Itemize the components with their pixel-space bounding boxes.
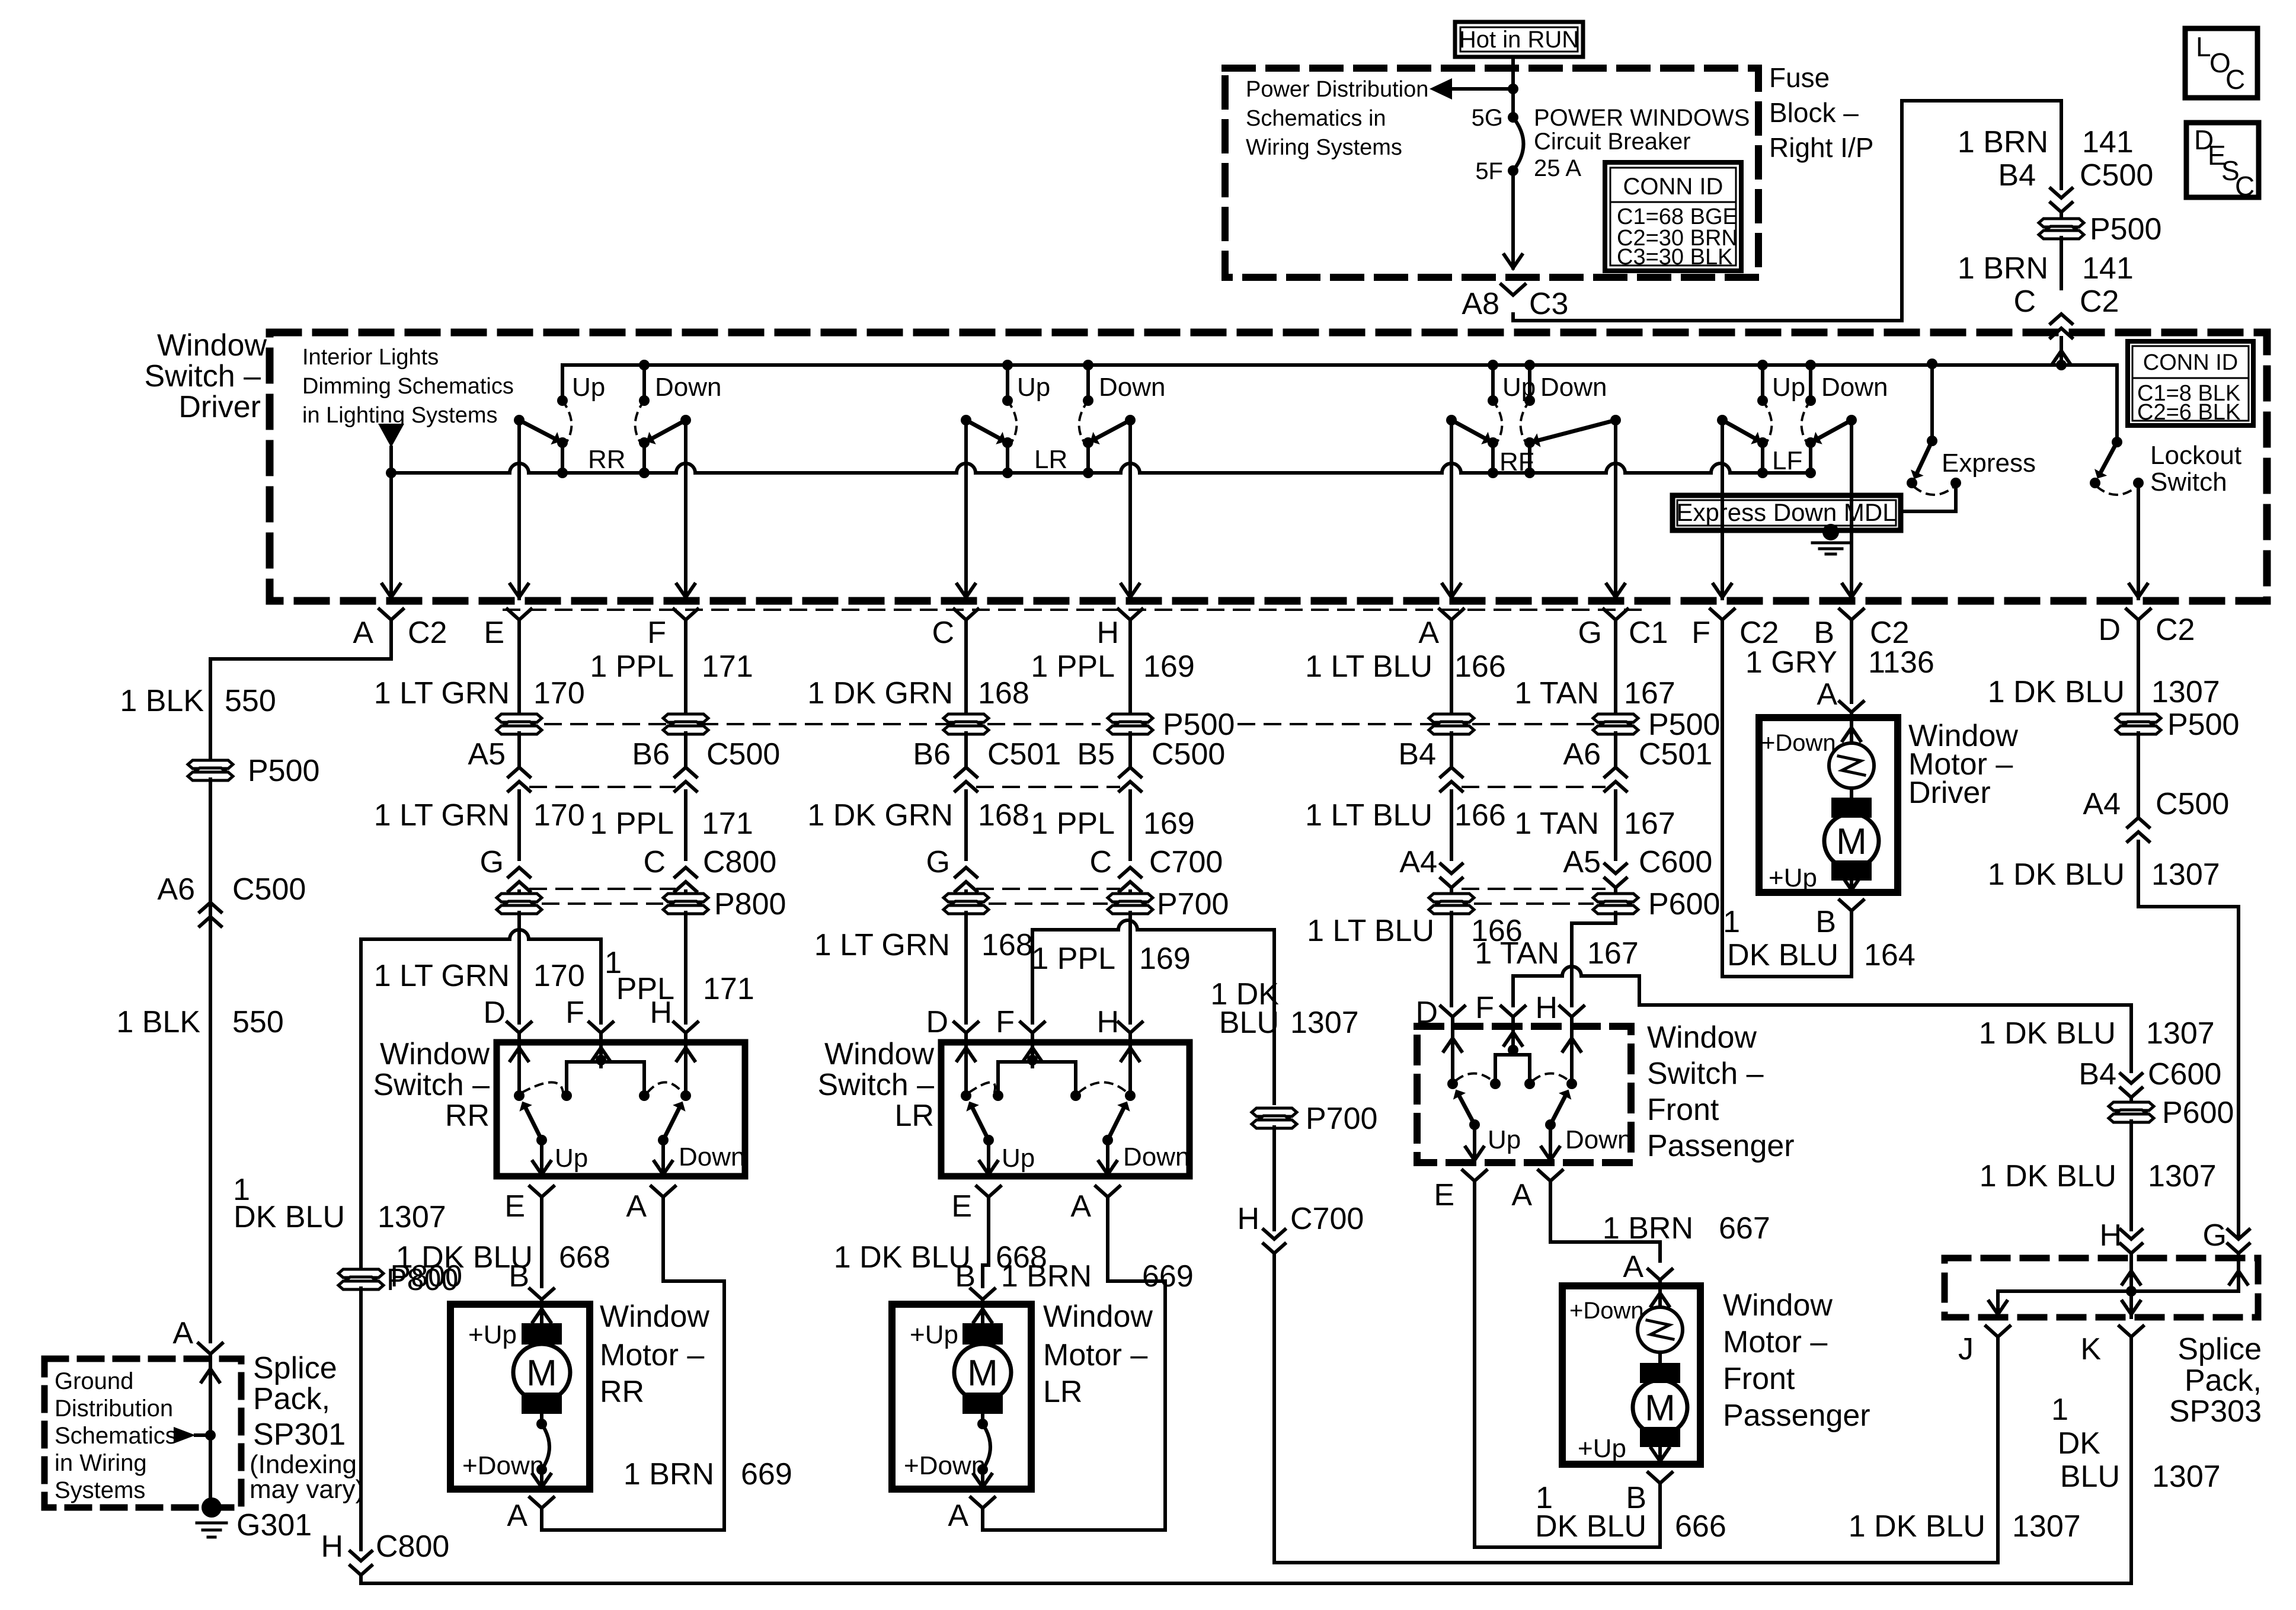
svg-text:Ground: Ground — [55, 1368, 133, 1394]
svg-text:1 LT GRN: 1 LT GRN — [374, 798, 510, 833]
exit wire x=2726 — [1614, 420, 1617, 598]
wire D/C2 segment — [2137, 647, 2140, 715]
svg-text:P700: P700 — [1157, 887, 1229, 921]
LR exit wires — [987, 1140, 990, 1176]
RR switch left arm — [514, 415, 525, 425]
svg-text:M: M — [526, 1353, 557, 1394]
svg-text:B6: B6 — [632, 737, 670, 772]
FP feed wire loop (from SP303 H) — [1513, 966, 2131, 1071]
svg-text:25 A: 25 A — [1534, 155, 1581, 181]
MDL ground — [1822, 524, 1839, 540]
FP dashed arcs — [1456, 1074, 1492, 1081]
svg-text:Hot in RUN: Hot in RUN — [1459, 27, 1579, 53]
svg-text:169: 169 — [1139, 942, 1191, 976]
svg-text:M: M — [1836, 821, 1867, 862]
svg-text:669: 669 — [741, 1457, 792, 1491]
chevron row2 x=876 — [517, 733, 521, 767]
svg-text:F: F — [996, 1005, 1015, 1039]
window motor RR box — [450, 1304, 590, 1489]
svg-text:Window: Window — [380, 1037, 490, 1071]
inline connector row1 x=2449 — [1429, 714, 1474, 734]
svg-text:Window: Window — [1043, 1299, 1153, 1334]
FP A wire to motor — [1550, 1181, 1660, 1261]
svg-text:1136: 1136 — [1868, 645, 1934, 680]
inline connector P600 on C600 riser — [2129, 1097, 2133, 1103]
chevron row3 down x=2726 — [1605, 864, 1626, 888]
svg-text:RF: RF — [1499, 447, 1534, 476]
connector row 1 dashed line — [519, 723, 1099, 725]
svg-text:C: C — [1089, 845, 1112, 879]
wire F to switch H (RR) — [684, 913, 687, 1023]
window switch LR box — [941, 1042, 1189, 1176]
arrow to power distribution schematics — [1441, 87, 1513, 91]
svg-text:C600: C600 — [2148, 1057, 2221, 1092]
svg-text:1 LT BLU: 1 LT BLU — [1305, 649, 1432, 684]
svg-text:Dimming Schematics: Dimming Schematics — [302, 374, 514, 399]
svg-text:166: 166 — [1454, 798, 1506, 833]
window switch RR box — [497, 1042, 745, 1176]
Hot in RUN label box — [1455, 22, 1583, 57]
svg-text:B6: B6 — [913, 737, 951, 772]
svg-text:C: C — [2235, 171, 2255, 201]
svg-text:1 DK GRN: 1 DK GRN — [807, 798, 953, 833]
svg-text:A: A — [626, 1189, 647, 1224]
svg-text:Systems: Systems — [55, 1477, 145, 1503]
svg-text:Down: Down — [655, 373, 722, 402]
driver motor thermal breaker — [1829, 743, 1874, 788]
svg-text:Splice: Splice — [2177, 1332, 2262, 1366]
svg-text:P800: P800 — [714, 887, 786, 921]
svg-text:Passenger: Passenger — [1647, 1129, 1795, 1163]
connector row C2 thin dashed line — [504, 609, 1642, 611]
wire B/C2 to driver motor A — [1850, 647, 1853, 702]
svg-text:Schematics: Schematics — [55, 1423, 177, 1449]
svg-text:1 BRN: 1 BRN — [1603, 1211, 1693, 1246]
RF switch up contact — [1491, 365, 1495, 401]
wire x=1157 segment to connector row1 — [684, 647, 687, 715]
SP303 J exit — [1986, 1326, 2010, 1337]
FP bottom wire 666 — [1475, 1545, 1660, 1549]
RR down arm — [658, 1135, 669, 1145]
svg-text:Window: Window — [824, 1037, 934, 1071]
RR motor symbol — [522, 1323, 562, 1345]
fuse block dashed box — [1225, 68, 1758, 277]
LR switch left arm — [961, 415, 971, 425]
RR switch up contact — [561, 365, 564, 401]
RF switch right arm — [1610, 415, 1621, 425]
LF moving contact stubs — [1761, 443, 1764, 473]
svg-text:F: F — [565, 996, 584, 1030]
svg-text:RR: RR — [588, 445, 626, 474]
svg-text:E: E — [484, 616, 504, 650]
wire x=2726 segment to connector row1 — [1614, 647, 1617, 715]
exit wire x=660 — [389, 473, 393, 598]
exit wire x=1157 — [684, 420, 687, 598]
chevron row2 x=1157 — [684, 733, 687, 767]
svg-text:Down: Down — [1123, 1142, 1190, 1172]
svg-text:Block –: Block – — [1769, 97, 1859, 128]
svg-text:1 BRN: 1 BRN — [1001, 1259, 1092, 1294]
svg-text:F: F — [647, 616, 666, 650]
svg-text:1 DK GRN: 1 DK GRN — [807, 676, 953, 710]
svg-text:Interior Lights: Interior Lights — [302, 345, 439, 370]
svg-text:Driver: Driver — [178, 390, 261, 424]
LF switch up contact — [1761, 365, 1764, 401]
TAN wire jog to FP switch H — [1572, 913, 1616, 1006]
ground distribution dashed box — [44, 1359, 241, 1507]
chevron row3 down x=2449 — [1441, 864, 1462, 888]
circuit breaker POWER WINDOWS 25 A — [1508, 112, 1518, 123]
svg-text:1 BLK: 1 BLK — [116, 1005, 200, 1039]
FP T-bar — [1508, 1045, 1518, 1055]
inline connectors P600 (RF pair) — [1429, 894, 1474, 914]
svg-text:C700: C700 — [1290, 1202, 1364, 1236]
svg-text:Wiring Systems: Wiring Systems — [1246, 135, 1402, 160]
svg-text:1 BRN: 1 BRN — [1958, 251, 2048, 286]
RR feed wire loop — [361, 930, 601, 1267]
svg-text:H: H — [2099, 1218, 2122, 1253]
wire RR E to motor B — [540, 1223, 543, 1286]
SP303 internal wires — [2129, 1258, 2133, 1291]
svg-text:667: 667 — [1719, 1211, 1770, 1246]
svg-text:C800: C800 — [703, 845, 776, 879]
LR up arm — [983, 1135, 994, 1145]
svg-text:A: A — [172, 1316, 193, 1350]
svg-text:A: A — [1511, 1178, 1532, 1212]
RR motor A exit — [530, 1497, 554, 1508]
svg-text:Circuit Breaker: Circuit Breaker — [1534, 129, 1691, 155]
svg-text:H: H — [650, 996, 672, 1030]
chevron row2 x=2726 — [1614, 733, 1617, 767]
RR box entry chevron x=876 — [507, 1022, 531, 1033]
FP outer contacts — [1447, 1078, 1458, 1089]
ground splice G301 — [202, 1497, 222, 1518]
svg-text:C800: C800 — [376, 1529, 449, 1564]
svg-text:BLU: BLU — [1219, 1006, 1279, 1040]
wire A/C2 to 1 BLK — [210, 647, 391, 761]
RF switch down contact — [1528, 365, 1531, 401]
svg-text:1 DK BLU: 1 DK BLU — [1979, 1016, 2116, 1051]
driver motor B exit — [1840, 900, 1863, 911]
wire feed to H C800 — [359, 1288, 363, 1550]
inline connector row1 x=1907 — [1108, 714, 1153, 734]
main bus wire with hops — [391, 463, 1811, 473]
SP303 K exit — [2119, 1326, 2143, 1337]
svg-text:F: F — [1475, 991, 1494, 1025]
LR entry arrows — [964, 1042, 968, 1096]
svg-text:5G: 5G — [1472, 105, 1503, 131]
wire D to splice pack G (right loop) — [2138, 907, 2239, 1237]
svg-text:Switch –: Switch – — [373, 1068, 490, 1102]
RR box entry chevron x=1157 — [674, 1022, 698, 1033]
svg-text:171: 171 — [702, 649, 753, 684]
svg-text:B5: B5 — [1077, 737, 1115, 772]
FP exit wires E and A — [1473, 1125, 1476, 1163]
exit wire x=2449 — [1450, 420, 1453, 598]
svg-text:LF: LF — [1772, 446, 1802, 475]
svg-text:Switch –: Switch – — [1647, 1057, 1764, 1091]
svg-text:168: 168 — [981, 928, 1033, 962]
inline connector row1 x=876 — [497, 714, 542, 734]
exit wire x=1907 — [1128, 420, 1132, 598]
svg-text:H: H — [1535, 991, 1558, 1025]
svg-text:+Up: +Up — [468, 1320, 517, 1349]
LR box entry chevron x=1630 — [954, 1022, 978, 1033]
wire E to switch D (RR) — [517, 913, 521, 1023]
inline connector row1 x=2726 — [1593, 714, 1638, 734]
svg-text:P600: P600 — [1648, 887, 1720, 921]
CONN ID table (fuse block) — [1605, 162, 1741, 271]
svg-text:1: 1 — [2051, 1393, 2068, 1427]
D wire chevron A4/C500 — [2137, 733, 2140, 818]
svg-text:1 DK BLU: 1 DK BLU — [1988, 675, 2125, 709]
inline connectors P700 (LR pair) — [944, 894, 989, 914]
RR up arm — [536, 1135, 547, 1145]
svg-text:+Down: +Down — [1569, 1298, 1644, 1324]
svg-text:1 BLK: 1 BLK — [120, 684, 204, 718]
svg-text:P500: P500 — [2167, 708, 2239, 742]
svg-text:171: 171 — [702, 806, 753, 841]
wire: breaker 5F to A8 — [1511, 171, 1515, 268]
svg-text:H: H — [1096, 616, 1119, 650]
bottom bus from C800 to SP303 K — [361, 1342, 2131, 1583]
FP entry chevron x=2652 — [1560, 1006, 1584, 1017]
wire x=1907 segment to connector row1 — [1128, 647, 1132, 715]
driver motor entry arrow — [1850, 718, 1853, 743]
svg-text:Schematics in: Schematics in — [1246, 106, 1386, 131]
inline connector P500 (BRN feed) — [2060, 212, 2063, 220]
svg-text:C500: C500 — [232, 872, 306, 907]
svg-text:H: H — [1237, 1202, 1259, 1236]
svg-text:G: G — [926, 845, 950, 879]
svg-text:1 TAN: 1 TAN — [1514, 806, 1599, 841]
svg-text:Window: Window — [600, 1299, 709, 1334]
express switch — [1927, 359, 1937, 369]
svg-text:Motor –: Motor – — [1723, 1325, 1827, 1359]
LR motor breaker wave — [981, 1414, 984, 1424]
wire A to FP switch D — [1450, 913, 1453, 1006]
svg-text:166: 166 — [1454, 649, 1506, 684]
svg-text:1 PPL: 1 PPL — [1031, 649, 1115, 684]
svg-text:1307: 1307 — [2152, 1459, 2221, 1494]
inline connector row1 x=1157 — [663, 714, 708, 734]
inline connector P700 on riser — [1252, 1108, 1297, 1128]
svg-text:666: 666 — [1675, 1509, 1726, 1544]
svg-text:C2: C2 — [2080, 284, 2119, 319]
svg-text:A5: A5 — [468, 737, 506, 772]
svg-text:DK BLU: DK BLU — [234, 1200, 345, 1234]
RR entry arrows — [517, 1042, 521, 1096]
chevron row2 x=2449 — [1450, 733, 1453, 767]
svg-text:169: 169 — [1143, 806, 1195, 841]
RF moving contact stubs — [1491, 443, 1495, 473]
svg-text:D: D — [926, 1005, 948, 1039]
svg-text:D: D — [1415, 996, 1438, 1030]
svg-text:C1: C1 — [1629, 616, 1668, 650]
svg-text:1 TAN: 1 TAN — [1475, 936, 1559, 971]
LR switch down contact — [1086, 365, 1090, 401]
svg-text:+Down: +Down — [462, 1451, 544, 1480]
svg-text:1307: 1307 — [2151, 675, 2220, 709]
svg-text:141: 141 — [2082, 125, 2134, 159]
svg-text:Window: Window — [1647, 1020, 1757, 1055]
svg-text:668: 668 — [559, 1240, 610, 1275]
svg-text:1 BRN: 1 BRN — [1958, 125, 2048, 159]
svg-text:may vary): may vary) — [250, 1475, 364, 1504]
svg-text:A: A — [507, 1499, 527, 1533]
svg-text:D: D — [483, 996, 506, 1030]
svg-text:C600: C600 — [1639, 845, 1712, 879]
svg-text:1 DK BLU: 1 DK BLU — [1849, 1509, 1985, 1544]
svg-text:Driver: Driver — [1908, 776, 1991, 810]
svg-text:A8: A8 — [1462, 287, 1499, 321]
LR down arm — [1102, 1135, 1113, 1145]
svg-text:Down: Down — [679, 1142, 746, 1172]
svg-text:DK BLU: DK BLU — [1727, 938, 1838, 972]
svg-text:B4: B4 — [1398, 737, 1436, 772]
exit wire x=3124 — [1850, 419, 1853, 598]
svg-text:K: K — [2080, 1332, 2101, 1366]
CONN ID table (driver switch) — [2128, 341, 2253, 425]
svg-text:170: 170 — [533, 959, 585, 993]
FP entry chevron x=2451 — [1441, 1006, 1464, 1017]
svg-text:Switch –: Switch – — [144, 359, 261, 393]
LR box entry chevron x=1907 — [1118, 1022, 1142, 1033]
LR feed wire loop — [1032, 920, 1274, 1103]
RR motor breaker wave — [540, 1414, 543, 1424]
wire: C2 into driver switch box — [2060, 338, 2063, 365]
wire BLK to ground box — [209, 926, 212, 1342]
svg-text:P600: P600 — [2162, 1096, 2234, 1130]
svg-text:1 LT BLU: 1 LT BLU — [1307, 914, 1434, 948]
FP motor symbol — [1640, 1363, 1680, 1383]
LR box entry chevron x=1742 — [1021, 1022, 1044, 1033]
svg-text:A: A — [1817, 677, 1837, 712]
wire 164: F/C2 to driver motor B — [1722, 647, 1851, 977]
RR switch down contact — [642, 365, 646, 401]
svg-text:RR: RR — [445, 1099, 490, 1133]
driver motor symbol — [1831, 798, 1872, 818]
ground feed triangle — [174, 1427, 196, 1443]
wire C to switch D (LR) — [964, 913, 968, 1023]
svg-text:A: A — [1070, 1189, 1091, 1224]
exit wire x=2906 — [1721, 420, 1724, 598]
svg-text:C500: C500 — [2156, 787, 2229, 821]
svg-text:A6: A6 — [157, 872, 195, 907]
window switch front passenger dashed box — [1417, 1026, 1631, 1163]
wire x=1630 segment to connector row1 — [964, 647, 968, 715]
svg-text:1307: 1307 — [2012, 1509, 2081, 1544]
svg-text:1307: 1307 — [2151, 857, 2220, 892]
svg-text:Fuse: Fuse — [1769, 62, 1830, 93]
svg-text:Down: Down — [1099, 373, 1166, 402]
wire x=876 segment to connector row1 — [517, 647, 521, 715]
LF dashed arcs — [1763, 401, 1771, 441]
FP motor entry arrow — [1658, 1286, 1662, 1307]
svg-text:Up: Up — [572, 373, 605, 402]
svg-text:A5: A5 — [1563, 845, 1601, 879]
svg-text:G: G — [1578, 616, 1602, 650]
svg-text:1307: 1307 — [2148, 1159, 2217, 1193]
svg-text:SP303: SP303 — [2169, 1394, 2262, 1429]
svg-text:C500: C500 — [1152, 737, 1225, 772]
RR dashed arcs — [523, 1083, 563, 1093]
svg-text:1 LT GRN: 1 LT GRN — [374, 959, 510, 993]
svg-text:LR: LR — [895, 1099, 934, 1133]
wire: Hot in RUN to breaker 5G — [1511, 57, 1515, 117]
interior lights feed triangle — [378, 424, 404, 447]
LR switch right arm — [1125, 415, 1136, 425]
svg-text:Down: Down — [1565, 1125, 1632, 1154]
svg-text:Power Distribution: Power Distribution — [1246, 77, 1428, 102]
svg-text:BLU: BLU — [2060, 1459, 2120, 1494]
svg-text:C2: C2 — [408, 616, 447, 650]
svg-text:164: 164 — [1864, 938, 1916, 972]
svg-text:1 LT GRN: 1 LT GRN — [374, 676, 510, 710]
svg-text:Pack,: Pack, — [253, 1382, 330, 1416]
svg-text:D: D — [2098, 613, 2121, 647]
svg-text:550: 550 — [225, 684, 276, 718]
svg-text:L: L — [2196, 31, 2211, 62]
svg-text:B: B — [509, 1259, 529, 1294]
LR dashed arcs — [970, 1083, 995, 1093]
FP entry chevron x=2553 — [1501, 1006, 1525, 1017]
svg-text:P500: P500 — [248, 754, 319, 788]
FP entry arrows — [1451, 1026, 1454, 1084]
svg-text:141: 141 — [2082, 251, 2134, 286]
svg-text:Up: Up — [1017, 373, 1050, 402]
svg-text:Passenger: Passenger — [1723, 1398, 1870, 1433]
RR dashed arcs — [562, 401, 571, 441]
svg-text:Pack,: Pack, — [2185, 1363, 2262, 1398]
svg-text:A4: A4 — [1399, 845, 1437, 879]
wire LR E to motor B — [983, 1223, 989, 1286]
chevron row2 x=1630 — [964, 733, 968, 767]
svg-text:Express: Express — [1942, 449, 2036, 478]
svg-text:B4: B4 — [2078, 1057, 2116, 1092]
LR motor A exit — [971, 1497, 994, 1508]
LF switch right arm — [1846, 415, 1857, 425]
svg-text:Switch: Switch — [2150, 468, 2227, 497]
svg-text:C: C — [643, 845, 666, 879]
FP down arm — [1545, 1119, 1556, 1130]
svg-text:G: G — [480, 845, 504, 879]
RF dashed arcs — [1493, 401, 1502, 441]
svg-text:CONN ID: CONN ID — [1623, 174, 1723, 200]
svg-text:+Up: +Up — [1769, 863, 1817, 892]
RF switch left arm — [1446, 415, 1457, 425]
svg-text:M: M — [1645, 1388, 1675, 1429]
RR T-bar — [596, 1055, 606, 1065]
svg-text:CONN ID: CONN ID — [2143, 350, 2238, 375]
svg-text:C: C — [932, 616, 954, 650]
svg-text:C: C — [2225, 64, 2245, 95]
svg-text:SP301: SP301 — [253, 1417, 346, 1452]
svg-text:Down: Down — [1821, 373, 1888, 402]
svg-text:168: 168 — [978, 676, 1029, 710]
svg-text:1307: 1307 — [2146, 1016, 2215, 1051]
svg-text:Motor –: Motor – — [1043, 1338, 1147, 1372]
svg-text:168: 168 — [978, 798, 1029, 833]
exit wire x=1630 — [964, 420, 968, 598]
svg-text:1307: 1307 — [1290, 1006, 1359, 1040]
svg-text:1: 1 — [1723, 905, 1740, 939]
svg-text:171: 171 — [703, 972, 754, 1006]
svg-text:C3: C3 — [1529, 287, 1568, 321]
inline connector row1 x=1630 — [944, 714, 989, 734]
svg-text:A: A — [1623, 1250, 1643, 1284]
inline connector P800 on feed wire — [338, 1269, 383, 1289]
